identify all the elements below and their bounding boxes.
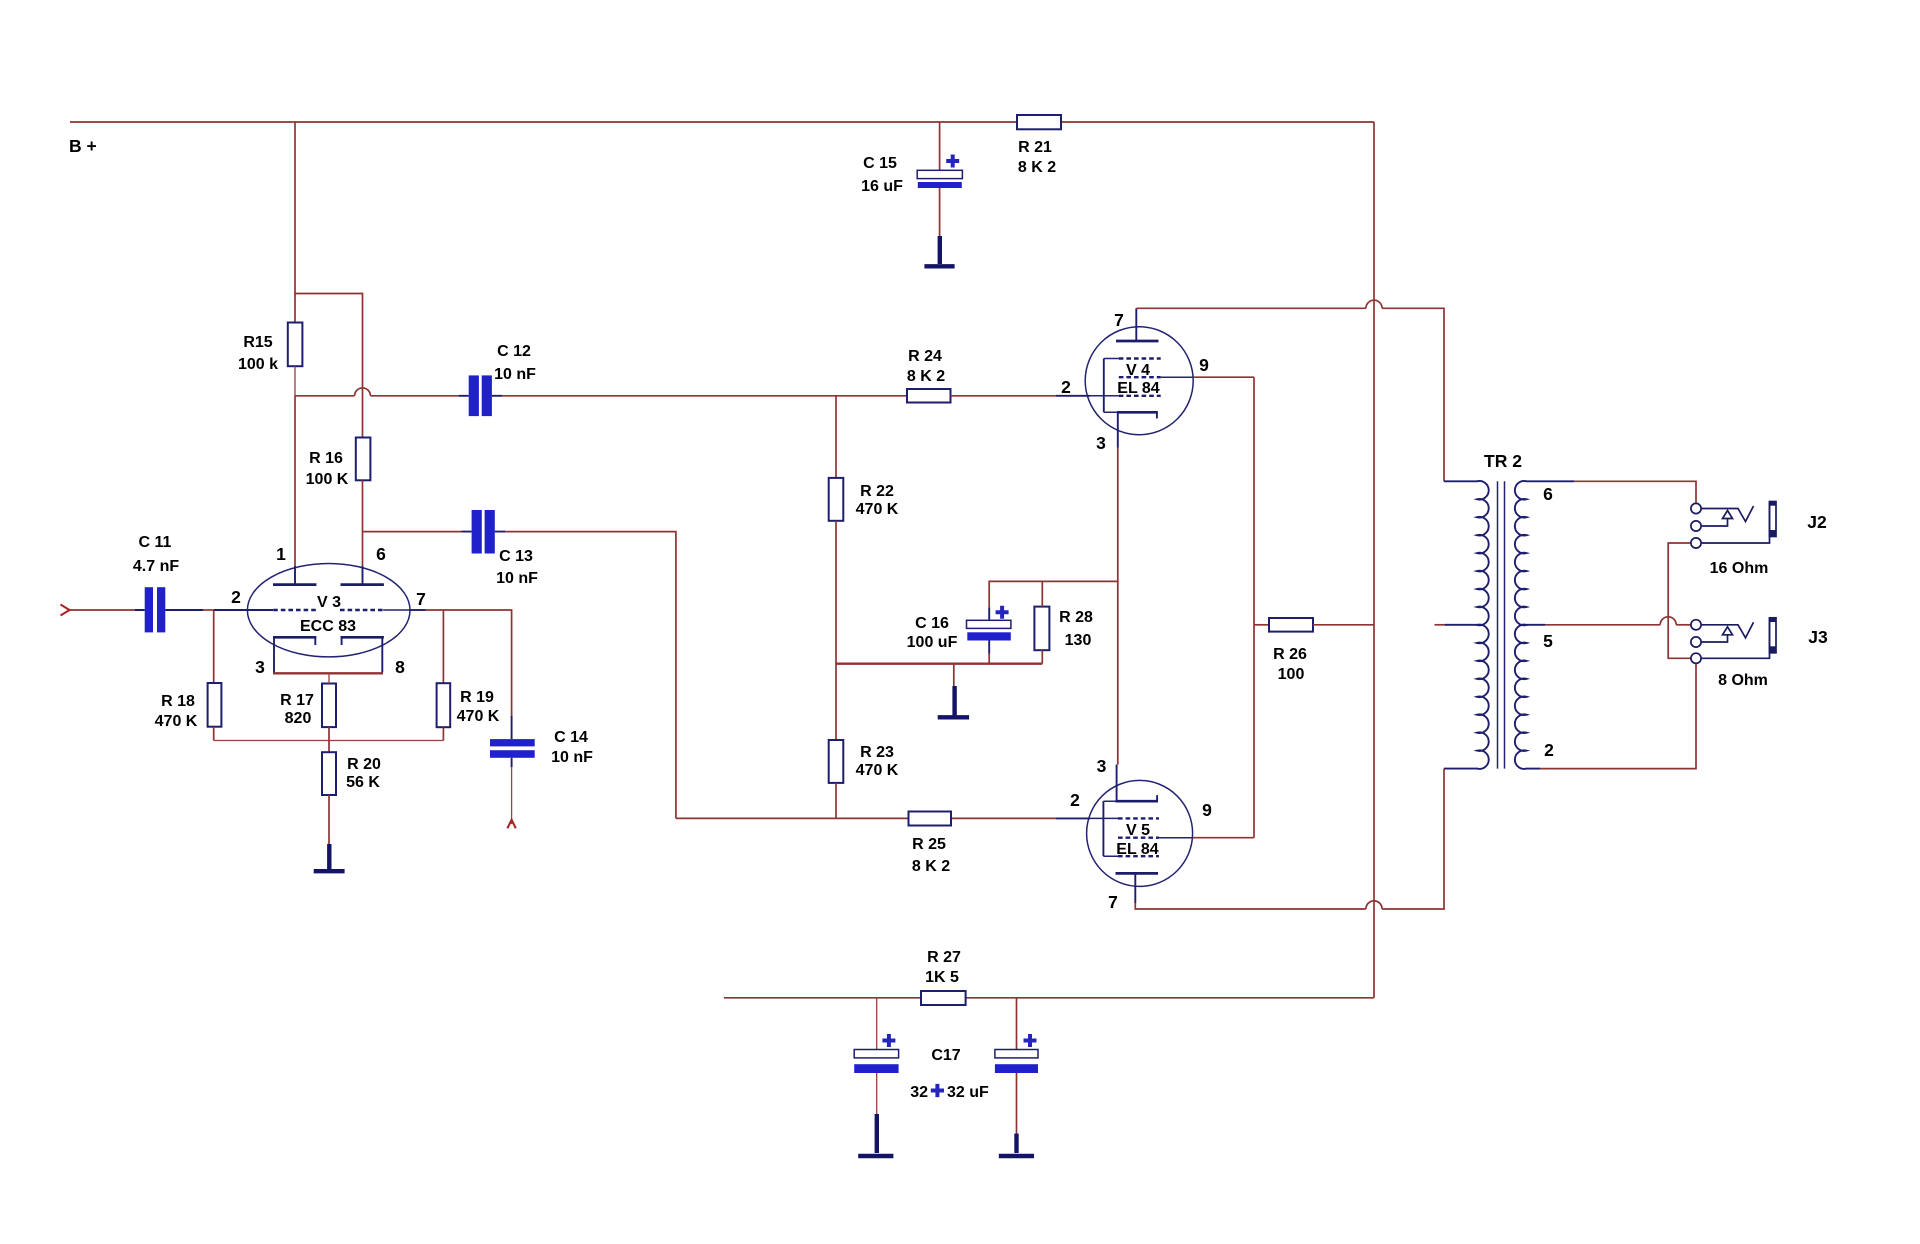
svg-text:3: 3 bbox=[1096, 433, 1106, 453]
svg-text:5: 5 bbox=[1543, 631, 1553, 651]
transformer TR2 secondary winding bbox=[1515, 481, 1527, 769]
resistor R20 bbox=[322, 752, 381, 795]
svg-text:16 Ohm: 16 Ohm bbox=[1710, 560, 1769, 577]
wire: V4 plate to transformer primary top bbox=[1136, 307, 1366, 309]
svg-text:R 27: R 27 bbox=[927, 949, 961, 966]
wire: R17 bottom to R20 top bbox=[328, 727, 330, 752]
svg-text:2: 2 bbox=[1070, 790, 1080, 810]
pentode V4 envelope bbox=[1085, 327, 1193, 435]
V5 cathode (pin3) bbox=[1116, 800, 1159, 803]
svg-text:J2: J2 bbox=[1807, 512, 1827, 532]
svg-text:100: 100 bbox=[1278, 666, 1305, 683]
wire: R23 bottom lead bbox=[835, 783, 837, 819]
svg-text:R 25: R 25 bbox=[912, 836, 946, 853]
svg-text:C 16: C 16 bbox=[915, 615, 949, 632]
svg-text:8 K 2: 8 K 2 bbox=[912, 858, 950, 875]
wire: C16 bottom stub bbox=[988, 654, 990, 664]
svg-text:8 Ohm: 8 Ohm bbox=[1718, 672, 1768, 689]
svg-text:C 15: C 15 bbox=[863, 155, 897, 172]
V5 pin2 link bbox=[1056, 817, 1090, 819]
wire: C13 right vertical to lower drive rail bbox=[505, 532, 676, 819]
svg-text:1: 1 bbox=[276, 544, 286, 564]
jack J2 bbox=[1691, 502, 1827, 578]
wire: cathode return rail R18-R19 bbox=[214, 740, 444, 742]
wire: cathode bias rail (C16/R28 bottom) bbox=[836, 663, 1042, 665]
svg-text:TR 2: TR 2 bbox=[1484, 451, 1522, 471]
svg-text:R 20: R 20 bbox=[347, 756, 381, 773]
svg-text:10 nF: 10 nF bbox=[551, 749, 593, 766]
wire: C11 to V3 grid junction bbox=[203, 609, 214, 611]
resistor R25 bbox=[909, 812, 952, 876]
TR2 primary center tap lead bbox=[1435, 624, 1448, 626]
wire: V4 cathode to V5 cathode vertical bbox=[1117, 448, 1119, 765]
svg-text:ECC 83: ECC 83 bbox=[300, 618, 356, 635]
wire: tap5 to J3 tip with hop bbox=[1545, 624, 1660, 626]
ground below R20 bbox=[314, 844, 345, 871]
svg-text:8: 8 bbox=[395, 657, 405, 677]
svg-text:V 4: V 4 bbox=[1126, 362, 1150, 379]
V4 grid3 dashed bbox=[1119, 357, 1161, 359]
svg-text:EL 84: EL 84 bbox=[1117, 380, 1160, 397]
V4 pin9 link bbox=[1161, 376, 1194, 378]
svg-text:470 K: 470 K bbox=[856, 501, 899, 518]
wire: R26 left lead bbox=[1254, 624, 1269, 626]
wire: R18 top lead bbox=[213, 610, 215, 683]
resistor R16 bbox=[306, 438, 371, 489]
svg-text:32 uF: 32 uF bbox=[947, 1084, 989, 1101]
svg-text:6: 6 bbox=[1543, 484, 1553, 504]
resistor R17 bbox=[280, 684, 336, 728]
svg-text:C 14: C 14 bbox=[554, 729, 588, 746]
svg-text:470 K: 470 K bbox=[457, 708, 500, 725]
wire: B+ vertical x1374 bbox=[1373, 122, 1375, 998]
svg-text:R15: R15 bbox=[243, 334, 272, 351]
V5 grid3 dashed bbox=[1118, 855, 1159, 857]
svg-text:470 K: 470 K bbox=[856, 762, 899, 779]
wire: R19 top lead bbox=[442, 610, 444, 683]
resistor R18 bbox=[155, 683, 222, 730]
wire: R15 bottom to plate-1 node bbox=[294, 366, 296, 396]
TR2 primary bottom lead bbox=[1444, 768, 1478, 770]
svg-text:9: 9 bbox=[1202, 800, 1212, 820]
wire: cathode box bottom bar bbox=[273, 672, 383, 674]
resistor R19 bbox=[437, 683, 500, 727]
wire: V5 plate down and right to primary bottom bbox=[1135, 903, 1366, 909]
svg-text:10 nF: 10 nF bbox=[496, 570, 538, 587]
svg-text:R 26: R 26 bbox=[1273, 646, 1307, 663]
arrow below C14 bbox=[507, 820, 515, 829]
svg-text:B +: B + bbox=[69, 136, 97, 156]
V4 grid1 dashed (pin2) bbox=[1119, 395, 1161, 397]
wire: B+ top rail left of R21 bbox=[70, 121, 1017, 123]
capacitor C16 bbox=[907, 606, 1011, 654]
resistor R22 bbox=[829, 478, 899, 521]
wire: R19 bottom lead bbox=[442, 727, 444, 740]
wire: R24 to V4 pin2 bbox=[951, 395, 1057, 397]
svg-text:C 13: C 13 bbox=[499, 548, 533, 565]
svg-text:V 5: V 5 bbox=[1126, 822, 1150, 839]
svg-text:100 K: 100 K bbox=[306, 471, 349, 488]
wire: plate-1 node horizontal to C12 with hop over R16 branch bbox=[295, 395, 355, 397]
V3 cathode box left wall bbox=[273, 637, 275, 672]
ground below C17a bbox=[858, 1114, 893, 1156]
resistor R27 bbox=[921, 949, 966, 1005]
svg-text:J3: J3 bbox=[1808, 627, 1828, 647]
capacitor C11 bbox=[133, 534, 203, 632]
wire: plate node to C12 left stub bbox=[370, 395, 458, 397]
svg-text:2: 2 bbox=[1061, 377, 1071, 397]
wire: R26 right lead to B+ vertical bbox=[1313, 624, 1374, 626]
svg-text:8 K 2: 8 K 2 bbox=[1018, 159, 1056, 176]
ground below C15 bbox=[924, 236, 954, 266]
wire: R17 top lead bbox=[328, 673, 330, 684]
resistor R26 bbox=[1269, 618, 1313, 683]
svg-text:R 21: R 21 bbox=[1018, 139, 1052, 156]
V3 plate b (pin6) bbox=[341, 583, 384, 586]
svg-text:6: 6 bbox=[376, 544, 386, 564]
TR2 secondary tap 6 lead bbox=[1526, 480, 1574, 482]
triode V3 envelope bbox=[247, 564, 410, 657]
wire: tap2 up to J3 sleeve bbox=[1540, 663, 1696, 768]
V5 g3-cathode bracket bbox=[1102, 801, 1104, 856]
svg-text:7: 7 bbox=[1108, 892, 1118, 912]
svg-text:8 K 2: 8 K 2 bbox=[907, 368, 945, 385]
wire: pin1 lead red part bbox=[294, 396, 296, 566]
wire: ground stub on bias rail bbox=[953, 664, 955, 687]
wire: screen bus vertical bbox=[1253, 377, 1255, 838]
svg-text:R 19: R 19 bbox=[460, 689, 494, 706]
wire: B+ top rail right of R21 to corner x1374 bbox=[1061, 121, 1374, 123]
capacitor C15 bbox=[861, 122, 962, 237]
svg-text:100 k: 100 k bbox=[238, 356, 278, 373]
V3 cathode box right wall bbox=[381, 637, 383, 672]
V5 pin9 link bbox=[1159, 837, 1193, 839]
wire: B+ branch down at x295 to R15 bbox=[294, 122, 296, 323]
V4 pin2 link bbox=[1056, 395, 1090, 397]
svg-text:470 K: 470 K bbox=[155, 713, 198, 730]
wire: R27 rail bbox=[724, 997, 921, 999]
svg-text:56 K: 56 K bbox=[346, 774, 380, 791]
wire: C14 bottom stub bbox=[511, 767, 513, 824]
wire: R28 bottom lead bbox=[1041, 650, 1043, 664]
transformer TR2 core bbox=[1498, 481, 1505, 768]
V3 grid a dashed (pin2) bbox=[273, 609, 316, 611]
resistor R15 bbox=[238, 323, 302, 374]
transformer TR2 primary winding bbox=[1477, 481, 1489, 769]
wire: input line from arrow to C11 bbox=[70, 609, 135, 611]
TR2 secondary tap 5 lead bbox=[1526, 624, 1545, 626]
node pin2 V3 lead bbox=[214, 609, 273, 611]
wire: R20 bottom to ground bbox=[328, 795, 330, 845]
V3 plate a (pin1) bbox=[273, 583, 316, 586]
svg-text:3: 3 bbox=[255, 657, 265, 677]
resistor R24 bbox=[907, 348, 951, 403]
wire hop over x362.5 bbox=[355, 388, 371, 396]
ground below C17b bbox=[999, 1134, 1034, 1156]
resistor R21 bbox=[1017, 115, 1061, 176]
V3 cathode b (pin8) bbox=[341, 636, 384, 639]
svg-text:100 uF: 100 uF bbox=[907, 634, 958, 651]
V4 g3-cathode bracket bbox=[1103, 359, 1105, 413]
capacitor C14 bbox=[490, 716, 593, 767]
svg-text:1K 5: 1K 5 bbox=[925, 969, 959, 986]
svg-text:R 24: R 24 bbox=[908, 348, 942, 365]
wire: upper drive rail C12 to R24 bbox=[502, 395, 907, 397]
resistor R28 bbox=[1034, 607, 1093, 651]
pentode V5 envelope bbox=[1087, 780, 1193, 886]
svg-text:2: 2 bbox=[231, 587, 241, 607]
svg-text:C 12: C 12 bbox=[497, 343, 531, 360]
wire: lower drive rail to R25 bbox=[676, 817, 909, 819]
capacitor C12 bbox=[459, 343, 537, 416]
capacitor C17 section b bbox=[995, 998, 1038, 1134]
wire: V5 pin9 to screen bus bbox=[1193, 837, 1254, 839]
svg-text:R 28: R 28 bbox=[1059, 609, 1093, 626]
ground below bias rail bbox=[938, 686, 969, 717]
wire: C16 top corner to cathode rail bbox=[989, 581, 1118, 607]
TR2 primary top lead bbox=[1444, 480, 1478, 482]
wire: tap6 to J2 tip bbox=[1574, 481, 1696, 503]
wire: R28 top lead bbox=[1041, 581, 1043, 606]
wire: R18 bottom lead bbox=[213, 727, 215, 741]
TR2 secondary tap 2 lead bbox=[1526, 768, 1540, 770]
V4 cathode (pin3) bbox=[1117, 411, 1158, 414]
svg-text:R 22: R 22 bbox=[860, 483, 894, 500]
V5 grid2 dashed (pin9) bbox=[1118, 837, 1159, 839]
svg-text:10 nF: 10 nF bbox=[494, 366, 536, 383]
svg-text:9: 9 bbox=[1199, 355, 1209, 375]
V5 plate (pin7) bbox=[1116, 872, 1159, 875]
svg-text:7: 7 bbox=[416, 589, 426, 609]
svg-text:R 18: R 18 bbox=[161, 693, 195, 710]
svg-text:C 11: C 11 bbox=[139, 534, 172, 551]
svg-text:R 17: R 17 bbox=[280, 692, 314, 709]
svg-text:820: 820 bbox=[285, 710, 312, 727]
wire: J2 sleeve to J3 sleeve link bbox=[1668, 543, 1691, 658]
svg-text:4.7 nF: 4.7 nF bbox=[133, 558, 179, 575]
wire: branch from (295,293.5) right and down to R16 top bbox=[295, 294, 363, 438]
jack J3 bbox=[1691, 618, 1828, 689]
svg-text:R 16: R 16 bbox=[309, 450, 343, 467]
capacitor C13 bbox=[462, 510, 539, 587]
input arrow bbox=[61, 605, 70, 616]
wire: V4 pin9 to screen bus bbox=[1193, 376, 1254, 378]
wire hop at x1374 on V5 plate wire bbox=[1366, 901, 1382, 909]
V5 grid1 dashed (pin2) bbox=[1118, 817, 1159, 819]
svg-text:2: 2 bbox=[1544, 740, 1554, 760]
svg-text:32: 32 bbox=[910, 1084, 928, 1101]
svg-text:130: 130 bbox=[1065, 632, 1092, 649]
node pin7 V3 lead bbox=[383, 609, 410, 611]
V4 grid2 dashed (pin9) bbox=[1119, 376, 1161, 378]
svg-text:V 3: V 3 bbox=[317, 594, 341, 611]
wire: R16 bottom to C13 junction and pin6 lead bbox=[362, 480, 364, 566]
wire: C13 left horizontal from junction bbox=[363, 531, 462, 533]
svg-text:EL 84: EL 84 bbox=[1116, 841, 1159, 858]
svg-text:7: 7 bbox=[1114, 310, 1124, 330]
svg-text:3: 3 bbox=[1097, 756, 1107, 776]
wire: R22 top lead from upper rail bbox=[835, 396, 837, 478]
resistor R23 bbox=[829, 740, 899, 783]
svg-text:C17: C17 bbox=[931, 1047, 960, 1064]
V3 cathode a (pin3) bbox=[273, 636, 316, 639]
V4 plate (pin7) bbox=[1116, 340, 1159, 343]
wire hop at x1374 on V4 plate wire bbox=[1366, 300, 1382, 308]
capacitor C17 section a bbox=[854, 998, 898, 1115]
wire: R22 bottom to R23 top bbox=[835, 521, 837, 740]
V3 grid b dashed (pin7) bbox=[340, 609, 383, 611]
wire: V3 pin7 to C14 corner bbox=[425, 610, 512, 717]
wire: R25 to V5 pin2 bbox=[951, 817, 1056, 819]
svg-text:R 23: R 23 bbox=[860, 744, 894, 761]
svg-text:16 uF: 16 uF bbox=[861, 178, 903, 195]
